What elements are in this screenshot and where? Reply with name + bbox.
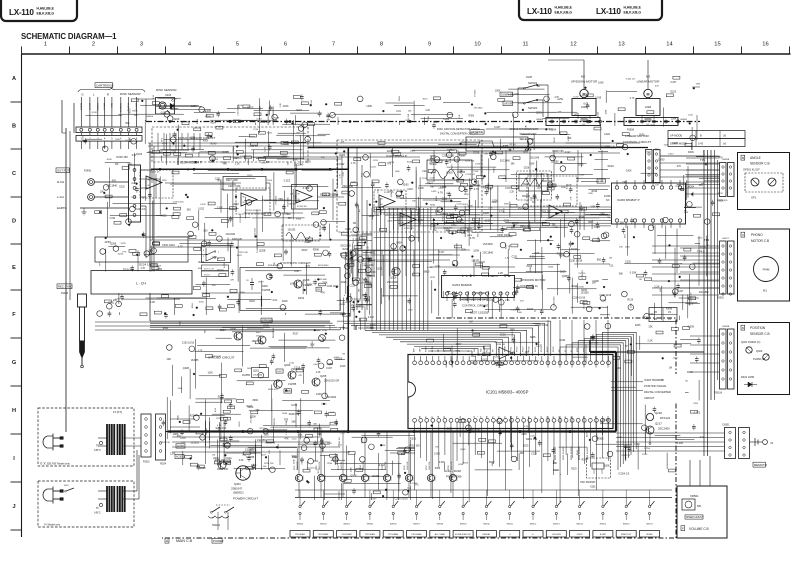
svg-text:(V): (V) (723, 143, 726, 146)
svg-text:R240: R240 (205, 117, 211, 119)
label R306 (541, 180, 556, 187)
svg-text:R219: R219 (198, 261, 204, 264)
svg-text:47K: 47K (298, 375, 302, 377)
svg-text:C216: C216 (294, 365, 301, 369)
svg-text:2.2K: 2.2K (426, 110, 431, 112)
svg-text:IC203 BA6208: IC203 BA6208 (452, 283, 472, 287)
svg-text:560: 560 (620, 221, 625, 225)
svg-text:2SC3400: 2SC3400 (387, 280, 398, 284)
transistor Q202 (268, 380, 282, 391)
svg-text:R204: R204 (548, 267, 554, 269)
svg-text:0.039: 0.039 (205, 111, 211, 113)
svg-text:D023 1S1555: D023 1S1555 (571, 446, 573, 460)
svg-text:R306: R306 (446, 170, 453, 174)
svg-text:LP/DOWN: LP/DOWN (552, 534, 561, 536)
thermal fuse TF2 (94, 503, 103, 514)
svg-text:1M: 1M (609, 258, 612, 260)
svg-text:C231: C231 (190, 137, 196, 139)
svg-text:OSC 360KSPI: OSC 360KSPI (580, 481, 596, 484)
cartridge wires with color labels (79, 97, 136, 127)
connector P2402 numbered row (76, 136, 142, 142)
svg-text:10K: 10K (113, 299, 118, 302)
svg-text:120K: 120K (473, 171, 479, 173)
svg-text:0.022: 0.022 (434, 453, 441, 456)
component cluster analog right (349, 150, 614, 315)
svg-text:R236 1M: R236 1M (496, 344, 505, 346)
svg-text:2SC1840: 2SC1840 (482, 251, 493, 255)
svg-text:1/2W: 1/2W (418, 187, 424, 190)
svg-text:1S1555: 1S1555 (366, 327, 375, 329)
svg-text:33K: 33K (648, 325, 653, 328)
svg-text:DIGITAL CONVERTER CIRCUIT: DIGITAL CONVERTER CIRCUIT (440, 132, 478, 136)
svg-text:56K: 56K (310, 344, 315, 347)
svg-text:6: 6 (284, 42, 287, 48)
svg-text:PHONO: PHONO (751, 233, 763, 237)
svg-text:C220 0.039: C220 0.039 (228, 185, 241, 188)
svg-text:0.022: 0.022 (256, 210, 262, 212)
test point TP6 (704, 238, 710, 247)
svg-text:D231: D231 (370, 253, 376, 255)
svg-text:IC205: IC205 (604, 195, 611, 198)
svg-text:D225: D225 (527, 307, 534, 311)
component cluster right edge (650, 149, 729, 310)
svg-text:4.7K: 4.7K (286, 430, 288, 435)
svg-text:6800: 6800 (370, 323, 376, 327)
svg-text:S7: S7 (535, 416, 537, 418)
svg-text:220K: 220K (617, 437, 622, 439)
svg-text:33K: 33K (655, 150, 659, 152)
svg-text:100K: 100K (173, 432, 179, 436)
output label (56, 168, 92, 173)
svg-text:E: E (12, 265, 16, 271)
svg-text:B.SKIP: B.SKIP (600, 534, 607, 536)
svg-text:Q218: Q218 (655, 411, 662, 415)
cartridge brace (78, 88, 145, 92)
component cluster mid center (340, 229, 376, 330)
svg-text:1S1555: 1S1555 (289, 203, 297, 205)
svg-text:2SC1840: 2SC1840 (699, 291, 710, 294)
svg-text:1: 1 (44, 42, 47, 48)
svg-text:47K: 47K (344, 252, 348, 254)
wire long top run 2 (148, 145, 610, 147)
svg-text:1M: 1M (607, 217, 610, 219)
cartridge interconnect wires (81, 133, 136, 136)
svg-text:0.022: 0.022 (198, 207, 205, 210)
svg-text:R228 15K: R228 15K (117, 155, 129, 159)
IC201 M58803-400SP (408, 355, 613, 429)
svg-text:SW207: SW207 (413, 524, 420, 526)
svg-text:D216: D216 (413, 474, 415, 480)
motor M3 (636, 89, 660, 119)
component cluster strobe (160, 320, 349, 465)
svg-text:R251 330: R251 330 (541, 211, 552, 213)
svg-text:R231: R231 (323, 445, 325, 451)
svg-text:100K: 100K (115, 139, 121, 141)
svg-text:C220: C220 (625, 261, 632, 264)
svg-text:2.2K: 2.2K (648, 340, 653, 343)
disk sensor lamp (156, 98, 175, 115)
wires angle connector (660, 156, 720, 177)
svg-text:R219: R219 (608, 165, 615, 168)
connector P2606 (624, 118, 688, 132)
up down motor control caption (520, 278, 545, 288)
svg-text:1/2W: 1/2W (529, 163, 535, 165)
svg-text:R204: R204 (160, 462, 167, 466)
svg-text:POWER: POWER (213, 539, 224, 543)
svg-text:T.SMC: T.SMC (598, 181, 605, 183)
phone plug jack J2 (78, 294, 87, 368)
svg-text:D226: D226 (389, 162, 395, 164)
wire bundle above IC201 right (560, 332, 636, 470)
svg-text:R227: R227 (318, 467, 320, 473)
svg-text:33K: 33K (412, 200, 416, 202)
svg-text:D225: D225 (278, 443, 280, 449)
heavy rail row C right (308, 147, 616, 149)
svg-text:PS731H XB: PS731H XB (446, 475, 461, 479)
svg-text:4.7K: 4.7K (351, 163, 356, 165)
waveform box 2 (517, 171, 552, 200)
main board dashed boundary (162, 318, 676, 538)
svg-text:1/2W: 1/2W (338, 162, 345, 166)
svg-text:WHITE: WHITE (135, 103, 137, 111)
svg-text:R219: R219 (261, 163, 267, 165)
svg-text:B: B (700, 134, 702, 138)
svg-text:PH150 (C): PH150 (C) (753, 357, 765, 361)
svg-text:Q208: Q208 (460, 449, 466, 451)
svg-text:47K: 47K (525, 352, 530, 354)
svg-text:10K: 10K (100, 192, 105, 194)
svg-text:0.039: 0.039 (431, 191, 437, 193)
svg-text:2SC1840: 2SC1840 (500, 160, 511, 163)
svg-text:1M: 1M (537, 86, 540, 88)
svg-text:S4: S4 (517, 416, 519, 418)
svg-text:100K: 100K (495, 89, 501, 92)
svg-text:C216: C216 (422, 178, 428, 180)
svg-text:Q208: Q208 (447, 428, 453, 430)
svg-text:C230 10/16: C230 10/16 (347, 235, 358, 237)
svg-text:Q208: Q208 (467, 235, 473, 237)
svg-text:D225: D225 (523, 446, 529, 448)
svg-text:D225: D225 (119, 186, 125, 188)
border frame column numbers 1-16 (44, 42, 769, 48)
junction dot cluster rail (159, 168, 331, 170)
junction dot cluster chain (169, 120, 591, 122)
connector CN201 (722, 424, 750, 459)
svg-text:D225: D225 (212, 257, 218, 259)
svg-text:SW216: SW216 (623, 524, 630, 526)
resistor R220 (316, 279, 327, 291)
wires transformer to connector (123, 438, 141, 499)
svg-text:←4.5 t(s): ←4.5 t(s) (507, 143, 516, 146)
svg-text:R240: R240 (418, 219, 424, 222)
svg-text:R204: R204 (327, 463, 333, 465)
svg-text:0.022: 0.022 (470, 363, 476, 365)
svg-text:100K: 100K (626, 169, 632, 172)
svg-text:C220: C220 (688, 115, 694, 117)
svg-text:2SC1840: 2SC1840 (106, 185, 117, 188)
svg-text:POSITION: POSITION (750, 326, 766, 330)
svg-text:6800: 6800 (424, 269, 430, 273)
svg-text:10/50: 10/50 (247, 368, 253, 370)
svg-text:SW204: SW204 (343, 524, 350, 526)
waveform box 3 (282, 225, 320, 241)
svg-text:2SC2400: 2SC2400 (658, 427, 670, 431)
svg-text:C230 10/16: C230 10/16 (569, 259, 583, 263)
svg-text:GGM 1/W: GGM 1/W (341, 461, 343, 470)
svg-text:12: 12 (570, 42, 576, 48)
svg-text:IC204 1/3: IC204 1/3 (619, 472, 630, 475)
svg-text:IC204 1/3: IC204 1/3 (135, 209, 146, 211)
svg-text:0.022: 0.022 (161, 214, 168, 217)
svg-text:4.7K: 4.7K (554, 97, 559, 99)
capacitor C3 on M3 (645, 119, 652, 126)
svg-text:R251 330: R251 330 (719, 200, 729, 202)
svg-text:220K: 220K (492, 202, 498, 204)
svg-text:D215: D215 (391, 474, 393, 480)
svg-text:47K: 47K (382, 147, 386, 149)
svg-text:D225: D225 (247, 107, 254, 110)
svg-text:6800: 6800 (253, 399, 259, 402)
component cluster right column (619, 150, 707, 320)
svg-text:F: F (682, 527, 684, 531)
svg-text:100K: 100K (517, 312, 522, 314)
synthetic circuit box (240, 268, 340, 311)
svg-text:1S1555: 1S1555 (191, 360, 200, 362)
svg-text:C231: C231 (311, 99, 313, 105)
svg-text:2SB1047: 2SB1047 (231, 487, 243, 491)
svg-text:1M: 1M (115, 163, 119, 166)
svg-text:R219: R219 (298, 297, 305, 300)
svg-text:2SC1840: 2SC1840 (326, 397, 336, 399)
svg-text:2.2K: 2.2K (242, 455, 247, 457)
title block LX-110 top-left (1, 0, 77, 21)
svg-text:R231: R231 (294, 465, 296, 470)
svg-text:R306: R306 (313, 248, 320, 252)
svg-text:10/50: 10/50 (639, 134, 646, 136)
svg-text:B: B (12, 124, 16, 130)
transistor Q210 (230, 328, 242, 340)
svg-text:1S1555: 1S1555 (242, 374, 251, 377)
svg-text:1M: 1M (353, 222, 356, 225)
svg-text:4.7K: 4.7K (438, 191, 444, 194)
svg-text:PROGRAM: PROGRAM (295, 533, 305, 536)
svg-text:6800: 6800 (396, 242, 402, 245)
svg-text:10/50: 10/50 (658, 158, 665, 162)
junction dots main buses (242, 430, 572, 433)
svg-text:10/50: 10/50 (264, 435, 270, 437)
svg-text:1M: 1M (592, 282, 595, 285)
svg-text:IC201 M58I03– 400SP: IC201 M58I03– 400SP (486, 390, 529, 395)
wires M2 M3 to control (548, 60, 648, 89)
svg-text:LINEAR MOTOR: LINEAR MOTOR (625, 134, 649, 138)
svg-text:K0: K0 (553, 416, 555, 418)
svg-text:R227: R227 (302, 249, 309, 252)
svg-text:IC204 1/3: IC204 1/3 (466, 174, 476, 176)
wire long runs row B2 (150, 153, 620, 186)
svg-text:C220: C220 (292, 439, 298, 441)
svg-text:H: H (12, 408, 16, 414)
svg-text:ORANGE: ORANGE (119, 103, 122, 113)
svg-text:M2: M2 (581, 75, 585, 79)
IC201 interior mask (408, 368, 611, 417)
svg-text:100K: 100K (458, 218, 464, 222)
svg-text:C230 10/16: C230 10/16 (573, 297, 586, 300)
transistor Q217 (644, 426, 654, 450)
svg-text:10/50: 10/50 (321, 403, 327, 405)
svg-text:0.01: 0.01 (499, 209, 505, 212)
svg-text:P2408: P2408 (61, 292, 69, 295)
svg-text:33K: 33K (382, 445, 386, 447)
svg-text:1S1555: 1S1555 (578, 273, 586, 275)
component cluster analog left (95, 150, 354, 319)
svg-text:Q208: Q208 (468, 206, 474, 208)
svg-text:R238: R238 (448, 465, 450, 470)
svg-text:10/50: 10/50 (232, 203, 239, 206)
linear motor control circuit label (623, 134, 652, 144)
svg-text:10K: 10K (341, 142, 345, 144)
wires position connector (690, 336, 720, 372)
svg-text:J1: J1 (770, 441, 774, 445)
svg-text:47K: 47K (520, 300, 524, 302)
svg-text:Q208: Q208 (183, 367, 190, 370)
switch bus risers (300, 490, 650, 498)
svg-text:GN09B: GN09B (722, 326, 730, 328)
border frame top ruler line (22, 53, 791, 55)
svg-text:WHITE: WHITE (88, 103, 90, 111)
svg-text:IC204 1/3: IC204 1/3 (621, 455, 631, 457)
svg-text:10K: 10K (290, 282, 295, 285)
svg-text:SW206: SW206 (390, 524, 397, 526)
svg-text:IC204 1/3: IC204 1/3 (589, 343, 599, 345)
component cluster phono speed (427, 321, 549, 471)
connector P2405 vertical (129, 165, 141, 222)
svg-text:14: 14 (666, 42, 673, 48)
svg-text:0.022: 0.022 (334, 357, 340, 359)
svg-text:D225: D225 (494, 356, 500, 358)
svg-text:4.7K: 4.7K (198, 350, 203, 352)
svg-text:Q208: Q208 (171, 99, 177, 101)
svg-text:1S1555: 1S1555 (245, 448, 254, 451)
svg-text:D226: D226 (373, 160, 379, 162)
connector P2604 (536, 118, 601, 132)
svg-text:R204: R204 (339, 154, 345, 157)
component cluster top left (83, 93, 331, 166)
svg-text:S1: S1 (498, 416, 500, 418)
svg-text:0.022: 0.022 (224, 262, 226, 268)
svg-text:120K: 120K (461, 249, 467, 251)
svg-text:IC204 M5224 P: IC204 M5224 P (180, 161, 202, 165)
svg-text:2SC1840: 2SC1840 (340, 244, 351, 247)
svg-text:IC204 1/3: IC204 1/3 (512, 329, 514, 339)
label GBT (276, 369, 283, 373)
svg-text:C230 10/16: C230 10/16 (173, 201, 185, 203)
svg-text:10K: 10K (198, 268, 202, 270)
title block LX-110 top-center (519, 0, 662, 20)
svg-text:1S1555: 1S1555 (603, 419, 612, 421)
svg-text:R251 330: R251 330 (409, 444, 420, 447)
svg-text:TP3: TP3 (225, 457, 230, 461)
svg-text:120K: 120K (170, 454, 176, 456)
svg-text:R306: R306 (598, 438, 604, 441)
svg-text:56K: 56K (511, 164, 515, 166)
wire drops converter area (434, 150, 602, 182)
switch row SW202-SW217 (297, 498, 655, 526)
svg-text:C231: C231 (291, 403, 298, 407)
svg-text:D226: D226 (370, 271, 376, 274)
svg-text:C230 10/16: C230 10/16 (442, 155, 455, 158)
svg-text:PHM: PHM (763, 268, 770, 272)
svg-text:C230 10/16: C230 10/16 (395, 497, 409, 500)
svg-text:DTA124: DTA124 (660, 416, 670, 420)
svg-text:0.039: 0.039 (630, 271, 637, 274)
IC206 interior mask (613, 191, 684, 217)
svg-text:F1 (P.T): F1 (P.T) (113, 410, 122, 414)
svg-text:2SC1840: 2SC1840 (475, 292, 486, 295)
jack L-CH (57, 194, 128, 201)
svg-text:M: M (647, 92, 650, 96)
component cluster digital right (543, 323, 705, 475)
svg-text:UP/DOWN MOTOR: UP/DOWN MOTOR (571, 80, 598, 84)
IC201 top pin names (413, 345, 592, 352)
svg-text:PMO1: PMO1 (511, 347, 513, 352)
svg-text:0.039: 0.039 (677, 442, 684, 445)
svg-text:UP,ON: UP,ON (504, 102, 512, 106)
svg-text:GGM 1/W: GGM 1/W (407, 461, 409, 470)
svg-text:50K: 50K (697, 505, 702, 508)
label UP ON (503, 101, 513, 106)
svg-text:220K: 220K (435, 211, 441, 213)
svg-text:1M: 1M (469, 321, 472, 324)
wire verticals right column extra (715, 150, 718, 400)
svg-text:C220: C220 (536, 345, 543, 348)
svg-text:R204: R204 (192, 302, 194, 308)
diode D229 (262, 285, 271, 292)
svg-text:R227: R227 (129, 107, 131, 113)
svg-text:10K: 10K (287, 213, 292, 216)
IC203 interior mask (443, 277, 513, 291)
svg-text:0.01: 0.01 (530, 255, 536, 258)
svg-text:4.7K: 4.7K (474, 188, 479, 191)
svg-text:47K: 47K (571, 196, 573, 200)
svg-text:C230 10/16: C230 10/16 (162, 244, 175, 247)
svg-text:ALL CLEAR: ALL CLEAR (435, 533, 446, 536)
svg-text:F.SKIP: F.SKIP (577, 534, 584, 536)
svg-text:S5: S5 (523, 416, 525, 418)
svg-text:GGM 1/W: GGM 1/W (385, 461, 387, 470)
svg-text:2.2/50: 2.2/50 (644, 448, 651, 450)
svg-text:SW202: SW202 (297, 524, 304, 526)
svg-text:47K: 47K (719, 157, 724, 160)
svg-text:Q208: Q208 (91, 112, 97, 114)
svg-text:DISK SENSOR: DISK SENSOR (120, 92, 141, 96)
svg-text:220K: 220K (294, 459, 296, 464)
svg-text:TP3: TP3 (153, 179, 158, 182)
svg-text:C220: C220 (350, 286, 356, 288)
phono speed control caption (459, 298, 492, 308)
phono motor board box (738, 229, 790, 301)
svg-text:D214: D214 (369, 474, 371, 480)
svg-text:1S1555: 1S1555 (475, 89, 477, 97)
thick bus top segment (590, 351, 616, 353)
vertical wires to sensor boards (704, 150, 711, 456)
svg-text:0.047: 0.047 (430, 177, 436, 179)
svg-text:R228 15K: R228 15K (260, 122, 270, 124)
svg-text:D226: D226 (136, 153, 142, 156)
earth terminal (57, 206, 128, 215)
svg-text:3: 3 (140, 42, 143, 48)
svg-text:D225: D225 (581, 290, 587, 292)
svg-text:D226: D226 (530, 336, 536, 339)
